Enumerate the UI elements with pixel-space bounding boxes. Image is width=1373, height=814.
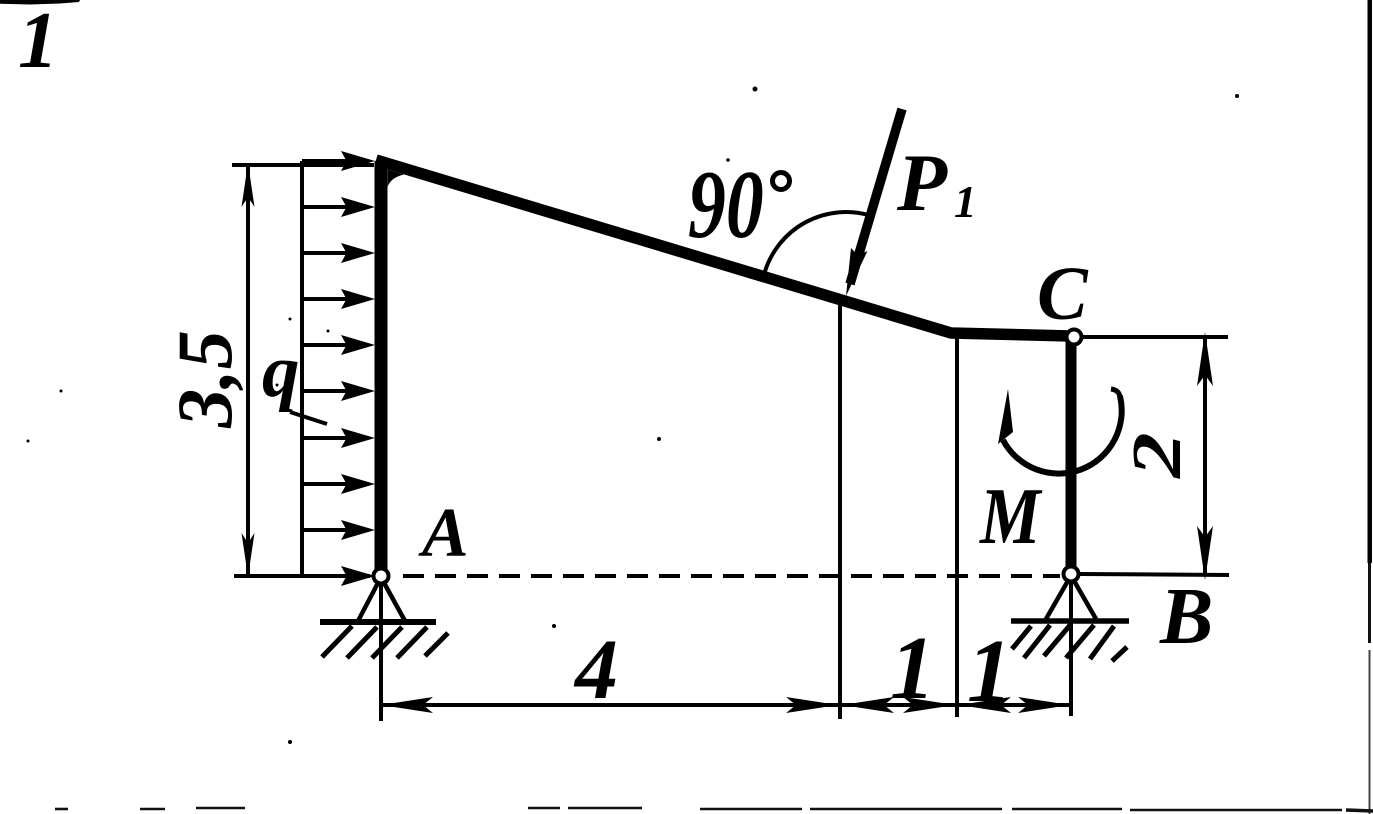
svg-text:M: M xyxy=(979,472,1043,562)
right member C-B xyxy=(1066,340,1077,570)
svg-text:B: B xyxy=(1159,573,1213,661)
support B: hatching xyxy=(1012,624,1127,661)
bottom dimension line 4-1-1 xyxy=(381,703,1070,707)
svg-text:C: C xyxy=(1037,252,1089,336)
force P1: arrowhead xyxy=(846,248,868,296)
force P1: shaft xyxy=(850,109,902,284)
dimension 2: dimension line xyxy=(1203,336,1207,576)
moment M: arc end hook xyxy=(1111,389,1120,397)
extension line below A (x=381) xyxy=(379,583,383,721)
extension line at load point (x=840) xyxy=(838,300,842,719)
dimension 3,5: dimension line xyxy=(246,167,250,574)
moment M: arc xyxy=(1003,396,1122,474)
svg-text:1: 1 xyxy=(967,622,1012,721)
dimension 2: extension line top (from C) xyxy=(1082,335,1228,339)
angle arc 90 deg xyxy=(765,212,871,273)
dim 1a: arrowhead left xyxy=(842,697,894,713)
svg-text:q: q xyxy=(262,330,300,413)
svg-text:3,5: 3,5 xyxy=(161,330,248,429)
support A: hatching xyxy=(322,626,448,658)
dim 1a: arrowhead right xyxy=(903,697,955,713)
svg-text:4: 4 xyxy=(573,621,618,717)
joint fillet at column top xyxy=(388,170,404,188)
dim 1b: arrowhead right xyxy=(1018,697,1070,713)
svg-text:2: 2 xyxy=(1118,432,1196,479)
leader line for q xyxy=(290,412,327,424)
support B: triangle legs xyxy=(1046,579,1096,619)
dashed axis line A-B xyxy=(393,574,1060,578)
svg-text:1: 1 xyxy=(18,0,58,85)
page artifact: top-left black strip xyxy=(0,0,80,5)
dimension 3,5: bottom baseline xyxy=(234,574,370,578)
dimension 2: arrowhead down xyxy=(1197,526,1213,580)
dimension 3,5: arrowhead down xyxy=(242,533,255,577)
dimension 2: arrowhead up xyxy=(1197,332,1213,386)
svg-text:90: 90 xyxy=(688,150,764,258)
hinge circle at C xyxy=(1067,330,1082,345)
inclined beam (top chord) xyxy=(376,160,1071,336)
dimension 3,5: arrowhead up xyxy=(242,163,255,207)
pin support B: hinge circle xyxy=(1064,567,1079,582)
dimension 2: extension line bottom (from B) xyxy=(1079,574,1229,575)
moment M: arrowhead xyxy=(998,389,1013,444)
distributed load q: baseline xyxy=(300,161,304,576)
page border: right rule xyxy=(1368,0,1373,814)
svg-text:1: 1 xyxy=(890,619,935,718)
svg-text:1: 1 xyxy=(954,177,977,227)
dim 4: arrowhead right xyxy=(786,697,838,713)
svg-text:P: P xyxy=(896,137,948,228)
dim 1b: arrowhead left xyxy=(959,697,1011,713)
column member A (left vertical) xyxy=(375,161,388,570)
scan noise specks xyxy=(27,87,1240,745)
dim 4: arrowhead left xyxy=(381,697,433,713)
support B: ground line xyxy=(1011,618,1129,624)
support A: triangle legs xyxy=(358,581,405,621)
page artifact: bottom broken rule xyxy=(55,808,1373,811)
extension line at bend (x=957) xyxy=(955,338,959,717)
pin support A: hinge circle xyxy=(374,569,389,584)
distributed load q: arrows xyxy=(302,151,375,586)
support A: ground line xyxy=(320,619,436,625)
dimension 3,5: extension tick top xyxy=(232,163,374,167)
extension line below B (x=1071) xyxy=(1069,580,1073,716)
svg-text:A: A xyxy=(418,495,469,572)
